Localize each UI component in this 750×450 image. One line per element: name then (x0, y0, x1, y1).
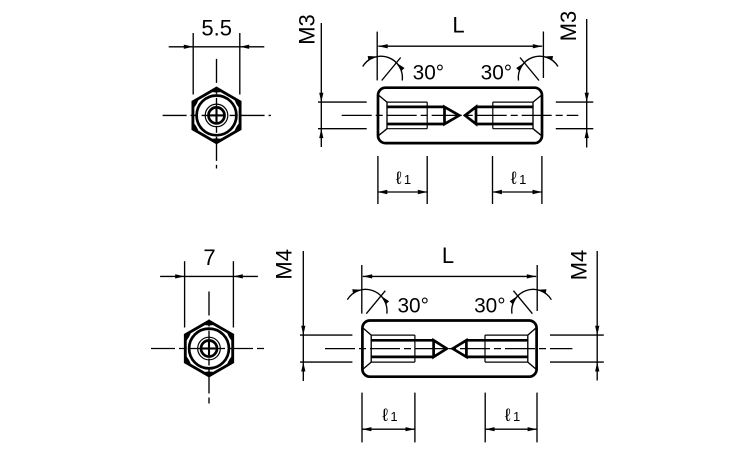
M4 hex chamfer circle (189, 329, 229, 369)
dimension l1 (M4): dimension line (362, 428, 415, 430)
svg-text:ℓ: ℓ (396, 168, 402, 188)
M3 side view: thread depth lines (426, 102, 428, 129)
M3 side view: drilled hole lines (387, 106, 445, 109)
dimension l1 (M3): extension lines (377, 156, 379, 204)
30-degree angular dimension arc (347, 289, 387, 313)
svg-text:M4: M4 (272, 249, 297, 280)
30-degree angular dimension arc (512, 289, 552, 313)
svg-text:M3: M3 (556, 11, 581, 42)
30-degree chamfer leader line (520, 58, 539, 81)
M3 side view: corner chamfer edges (379, 96, 387, 103)
dimension 7: dimension line with arrows (160, 275, 258, 277)
svg-text:1: 1 (513, 409, 520, 424)
M4 hex hole circle (201, 341, 217, 357)
dimension 5.5: extension lines (192, 33, 194, 95)
svg-text:ℓ: ℓ (382, 405, 388, 425)
M3 side view: chamfer boundary lines (386, 102, 388, 129)
30-degree angular dimension arc (363, 56, 403, 80)
svg-text:30°: 30° (474, 295, 505, 318)
M4 side view: body outline (362, 321, 536, 377)
dimension l1 (M3): dimension line (493, 191, 542, 193)
svg-text:L: L (452, 13, 464, 38)
M4 side view: corner chamfer edges (363, 328, 371, 335)
M3 side view: drill cone left (445, 107, 460, 124)
svg-text:L: L (442, 243, 454, 268)
30-degree arc arrowheads (543, 56, 553, 60)
M4 side view: chamfer boundary lines (370, 335, 372, 362)
M4 hex hexagon outline (185, 321, 232, 376)
M3 hex end view: vertical centerline (216, 59, 218, 169)
svg-text:5.5: 5.5 (201, 15, 232, 40)
svg-text:30°: 30° (397, 295, 428, 318)
svg-text:1: 1 (519, 172, 526, 187)
M3 hex chamfer circle (197, 96, 237, 136)
dimension M4 right: dimension line (596, 251, 598, 381)
dimension M4 left: extension lines (300, 334, 352, 336)
M3 hex thread major circle (205, 104, 228, 127)
30-degree chamfer leader line (366, 291, 385, 314)
M4 side view: drill cone right (453, 340, 467, 357)
30-degree arc arrowheads (537, 289, 547, 293)
dimension L (M3): extension lines (376, 32, 378, 81)
dimension M4 right: extension lines (550, 334, 604, 336)
M4 side view: drill cone left (434, 340, 447, 357)
M4 hex end view: horizontal centerline (151, 348, 267, 350)
M3 side view: thread major diameter lines (387, 101, 427, 103)
M3 hex hexagon corner chamfer wedges (193, 88, 240, 143)
M4 hex hexagon corner chamfer wedges (185, 321, 232, 376)
dimension M3 left: dimension line (320, 23, 322, 147)
dimension 7: extension lines (184, 261, 186, 327)
M3 side view: body outline (378, 88, 542, 143)
M3 side view: centerline (342, 114, 579, 116)
30-degree arc arrowheads (368, 56, 378, 60)
M3 hex center cross marks (210, 114, 223, 116)
dimension M3 left: extension lines (318, 101, 367, 103)
30-degree chamfer leader line (382, 58, 401, 81)
dimension l1 (M3): dimension line (378, 191, 427, 193)
svg-text:ℓ: ℓ (505, 405, 511, 425)
30-degree angular dimension arc (518, 56, 558, 80)
svg-text:ℓ: ℓ (511, 168, 517, 188)
dimension l1 (M4): extension lines (484, 393, 486, 443)
M4 side view: drilled hole lines (371, 339, 433, 342)
M3 hex hole circle (209, 107, 225, 123)
M4 hex thread major circle (198, 337, 221, 360)
svg-text:M4: M4 (567, 250, 592, 281)
dimension M3 right: dimension line (586, 19, 588, 148)
dimension L (M3): dimension line (378, 45, 542, 47)
svg-text:7: 7 (203, 245, 215, 270)
dimension M4 left: dimension line (302, 251, 304, 381)
dimension 5.5: dimension line with arrows (169, 46, 265, 48)
M4 hex center cross marks (202, 347, 215, 349)
M3 hex hexagon outline (193, 88, 240, 143)
dimension L (M4): extension lines (361, 265, 363, 314)
M4 hex end view: vertical centerline (208, 292, 210, 404)
svg-text:30°: 30° (481, 62, 512, 85)
30-degree arc arrowheads (352, 289, 362, 293)
M4 side view: thread depth lines (414, 335, 416, 362)
dimension l1 (M3): extension lines (492, 156, 494, 204)
dimension l1 (M4): extension lines (361, 393, 363, 443)
dimension l1 (M4): dimension line (485, 428, 537, 430)
dimension L (M4): dimension line (363, 275, 536, 277)
svg-text:1: 1 (404, 172, 411, 187)
svg-text:1: 1 (390, 409, 397, 424)
dimension M3 right: extension lines (556, 101, 594, 103)
svg-text:30°: 30° (413, 62, 444, 85)
M3 side view: drill cone right (465, 107, 476, 124)
M4 side view: thread major diameter lines (371, 334, 415, 336)
M3 hex end view: horizontal centerline (163, 114, 271, 116)
svg-text:M3: M3 (295, 14, 320, 45)
30-degree chamfer leader line (513, 291, 532, 314)
M4 side view: centerline (325, 348, 572, 350)
